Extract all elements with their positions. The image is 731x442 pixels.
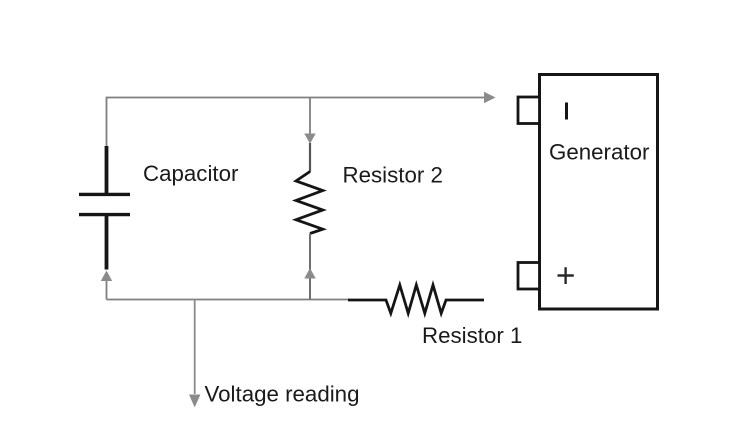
generator top terminal	[518, 97, 540, 124]
arrowhead pointing down into resistor 2	[304, 134, 315, 144]
arrowhead on top wire pointing right at generator terminal	[484, 92, 496, 103]
arrowhead pointing up on resistor 2 bottom lead	[304, 268, 315, 279]
wire: top horizontal from capacitor to generator	[107, 98, 486, 149]
svg-text:Voltage reading: Voltage reading	[205, 382, 360, 407]
arrowhead pointing up into capacitor bottom lead	[101, 271, 112, 282]
generator plus mark	[558, 267, 574, 284]
generator minus mark (I)	[565, 103, 568, 120]
capacitor bottom plate	[79, 213, 130, 216]
arrowhead pointing down (voltage reading)	[189, 395, 200, 408]
generator bottom terminal	[518, 263, 540, 290]
generator U1 box	[540, 75, 658, 310]
svg-text:Resistor 2: Resistor 2	[343, 163, 443, 188]
capacitor C (Capacitor)	[79, 146, 130, 270]
wire: bottom horizontal	[107, 299, 351, 301]
svg-text:Resistor 1: Resistor 1	[422, 323, 522, 348]
wire: resistor 2 branch bottom (zigzag to bottom wire)	[309, 234, 311, 300]
resistor R2 (Resistor 2) zigzag	[296, 172, 323, 234]
svg-text:Capacitor: Capacitor	[143, 161, 239, 186]
svg-text:Generator: Generator	[549, 140, 650, 165]
wire: left bottom segment below capacitor	[106, 277, 108, 300]
capacitor top lead	[105, 146, 109, 194]
wire: resistor 2 branch between arrow and zigzag	[309, 143, 311, 172]
capacitor bottom lead	[105, 215, 109, 270]
capacitor top plate	[79, 193, 130, 196]
wire: voltage reading branch going down	[194, 300, 196, 395]
resistor R1 (Resistor 1) horizontal zigzag with leads	[348, 285, 484, 313]
wire: resistor 2 branch top (from top wire down)	[309, 98, 311, 136]
